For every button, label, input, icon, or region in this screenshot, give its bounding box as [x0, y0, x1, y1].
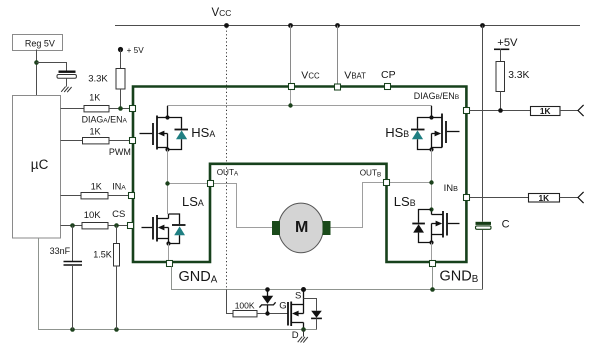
resistor 1K (DIAGB row) [531, 106, 579, 116]
svg-text:Reg 5V: Reg 5V [25, 38, 55, 48]
svg-text:10K: 10K [84, 210, 102, 221]
wire VCC lead down to pin [290, 26, 292, 84]
node GNDB on rail [430, 287, 435, 292]
wire Vcc top rail [115, 25, 580, 27]
svg-text:1K: 1K [540, 106, 551, 116]
resistor 1.5K [93, 226, 119, 330]
node OUTA junction [165, 181, 169, 185]
connector chevron (INB) [578, 192, 584, 203]
resistor 1K (DIAGA/ENA row) [61, 93, 130, 112]
motor M [272, 203, 331, 253]
pin INB [464, 195, 470, 201]
node LSA source [166, 241, 170, 245]
diode LSB body diode (black) [412, 210, 431, 243]
capacitor C [476, 219, 510, 290]
microcontroller U µC [13, 96, 61, 239]
connector chevron (DIAGB) [578, 105, 584, 116]
svg-text:VCC: VCC [212, 7, 232, 19]
resistor 1K (PWM row) [61, 127, 130, 144]
pin CP [385, 84, 391, 90]
svg-text:S: S [295, 290, 301, 301]
resistor 3.3K (left pull-up) [88, 50, 125, 109]
diode Q1 body diode (external) [304, 299, 322, 330]
regulator Reg 5V [13, 35, 63, 51]
svg-text:1.5K: 1.5K [93, 250, 112, 260]
node DIAGA pull-up junction [118, 106, 123, 111]
pin VCC [289, 84, 295, 90]
pin DIAGA/ENA [130, 106, 136, 112]
node on Vcc rail (VCC lead) [288, 23, 293, 28]
transistor LSA body arrow [158, 225, 165, 231]
svg-text:CP: CP [381, 69, 396, 81]
wire GNDB lead down to GND rail [432, 267, 434, 290]
resistor 1K (INB row) [529, 193, 579, 203]
node zener top on rail [265, 287, 270, 292]
diode HSA body diode (teal) [168, 118, 189, 150]
ground (hatched, protection FET drain) [298, 330, 308, 343]
pin DIAGB/ENB [464, 108, 470, 114]
wire motor lead A [214, 184, 273, 228]
transistor LSB [432, 210, 460, 243]
node DIAGB pull-up junction [498, 108, 503, 113]
node on Vcc rail (VBAT lead) [335, 23, 340, 28]
svg-text:3.3K: 3.3K [508, 70, 529, 81]
resistor 1K (INA row) [61, 182, 129, 199]
svg-text:1K: 1K [538, 193, 549, 203]
wire internal VCC rail (HSA drain to HSB drain) [168, 106, 432, 118]
node at Reg 5V output [34, 60, 39, 65]
transistor Q1 body arrow [292, 311, 299, 317]
transistor HSA [140, 106, 168, 150]
svg-text:INB: INB [444, 183, 459, 194]
transistor LSB body arrow [436, 221, 443, 227]
svg-text:1K: 1K [90, 127, 101, 137]
resistor 3.3K (right pull-up) [496, 49, 530, 111]
node HSB source [429, 147, 433, 151]
wire Vcc branch down to capacitor C [482, 26, 484, 222]
wire OUTA branch to pin [168, 183, 208, 185]
wire HSA source to LSA drain (OUTA node) [167, 150, 169, 215]
resistor 100K (gate bleed) [227, 290, 289, 317]
wire motor lead B [331, 183, 385, 228]
pin PWM [130, 138, 136, 144]
node internal VCC rail [288, 103, 292, 107]
capacitor 33nF [50, 226, 82, 330]
ground (hatched, under reservoir cap) [61, 87, 71, 93]
node CS / 33nF branch [70, 223, 75, 228]
transistor HSB [432, 106, 460, 150]
wire to reservoir capacitor [37, 63, 67, 71]
wire OUTB branch to pin [390, 182, 432, 184]
transistor HSB body arrow [435, 131, 442, 137]
diode LSA body diode (teal) [169, 214, 186, 244]
node bottom rail / 33nF branch [70, 327, 75, 332]
pin GNDB [430, 261, 436, 267]
svg-text:100K: 100K [235, 301, 255, 311]
svg-text:1K: 1K [89, 93, 100, 103]
wire boundary dashed line [226, 27, 228, 289]
pin GNDA [167, 261, 173, 267]
svg-text:+5V: +5V [497, 37, 518, 49]
driver IC outline (bridge chip) [133, 87, 466, 263]
svg-text:33nF: 33nF [50, 246, 71, 256]
node CS / 1.5K branch [114, 223, 119, 228]
svg-text:µC: µC [31, 157, 49, 172]
wire VBAT lead down to pin [337, 26, 339, 85]
capacitor (reservoir, polarized) [57, 71, 76, 87]
svg-text:G: G [279, 301, 286, 312]
wire internal VCC pin lead [290, 90, 292, 106]
wire LSA source to GNDA pin [168, 244, 170, 261]
pin CS [128, 223, 134, 229]
svg-text:VCC: VCC [301, 70, 320, 82]
wire DIAGB/ENB row [470, 110, 531, 112]
transistor Q1 (reverse battery protection FET) [288, 290, 304, 330]
svg-text:1K: 1K [91, 182, 102, 192]
+5V supply terminal (right) [494, 37, 518, 49]
wire INB row [470, 197, 529, 199]
pin INA [129, 193, 135, 199]
svg-text:D: D [292, 330, 299, 341]
pin OUTA [208, 181, 214, 187]
node bottom rail / 1.5K branch [114, 327, 119, 332]
svg-text:3.3K: 3.3K [88, 73, 108, 84]
svg-text:CS: CS [112, 209, 125, 220]
node LSB drain [429, 207, 433, 211]
node HSB drain [429, 115, 433, 119]
diode Z1 zener (gate clamp) [259, 290, 275, 314]
wire HSB source to LSB drain (OUTB node) [431, 150, 433, 211]
svg-text:PWM: PWM [109, 147, 131, 157]
transistor LSA [142, 214, 169, 244]
wire µC ground lead to bottom rail [39, 238, 317, 330]
svg-text:M: M [295, 219, 308, 236]
svg-text:+ 5V: + 5V [127, 46, 145, 55]
wire GND rail (GNDA to cap C) [172, 267, 483, 290]
+5V supply terminal (left) [118, 46, 144, 55]
svg-text:C: C [502, 219, 510, 231]
node HSA source [165, 147, 169, 151]
svg-text:VBAT: VBAT [344, 70, 366, 82]
resistor 10K (CS row) [61, 210, 128, 229]
node OUTB junction [429, 180, 433, 184]
diode HSB body diode (teal) [411, 118, 432, 150]
node LSB source [429, 240, 433, 244]
wire Reg 5V output down to µC [36, 50, 38, 96]
node zener bottom / gate [265, 311, 269, 315]
wire LSB source to GNDB pin [431, 243, 433, 261]
node S (protection FET source) on rail [301, 287, 306, 292]
node HSA drain [165, 115, 169, 119]
pin OUTB [384, 180, 390, 186]
node on Vcc rail (right cap branch) [480, 23, 485, 28]
transistor HSA body arrow [158, 131, 165, 137]
node on Vcc rail (dashed boundary tap) [224, 23, 229, 28]
pin VBAT [335, 84, 341, 90]
node D (drain on bottom rail) [301, 327, 306, 332]
